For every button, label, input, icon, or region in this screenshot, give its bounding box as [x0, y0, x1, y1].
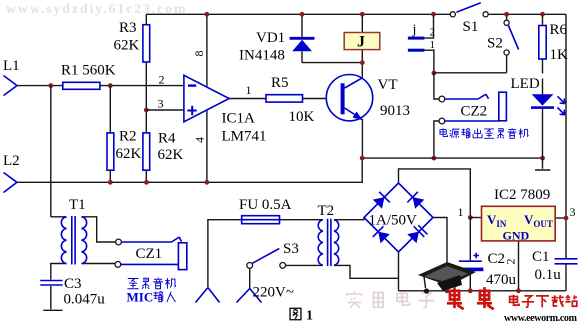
connector CZ1 jack body [178, 243, 186, 270]
node R2 bottom [108, 180, 113, 185]
node pin8 rail junction [205, 12, 210, 17]
switch S1 terminal circles [450, 12, 455, 17]
wire S3 right to T2 [286, 264, 323, 266]
connector CZ1 contact wire [122, 237, 182, 242]
label figure 1 (black hanzi) [290, 308, 301, 319]
node R1 right junction [108, 83, 113, 88]
svg-text:IN4148: IN4148 [239, 48, 285, 64]
node divider tap [144, 108, 149, 113]
wire L2 rail [17, 158, 362, 182]
svg-text:2: 2 [430, 27, 436, 39]
node Vin junction [468, 215, 473, 220]
connector CZ2 contact wire [445, 94, 489, 99]
svg-text:VD1: VD1 [256, 30, 285, 46]
fuse FU axis line [240, 219, 282, 221]
regulator IC2 7809 box [482, 206, 556, 241]
switch S2 arm [508, 26, 518, 50]
wire ground bus [399, 290, 566, 292]
svg-text:www.eeworm.com: www.eeworm.com [504, 313, 578, 324]
svg-text:3: 3 [570, 205, 576, 219]
watermark dianzi download site (red hanzi) [510, 295, 578, 308]
resistor R4 [143, 133, 150, 170]
svg-text:1: 1 [430, 39, 436, 51]
svg-text:LED: LED [511, 76, 540, 92]
svg-text:S1: S1 [463, 19, 479, 35]
wire op-amp pin8 [206, 14, 208, 86]
node CZ2 mid-rail junction [432, 156, 437, 161]
svg-text:1: 1 [306, 309, 313, 324]
svg-text:3: 3 [158, 97, 164, 111]
wire VD1 stubs [302, 14, 362, 62]
svg-text:IC1A: IC1A [222, 111, 256, 127]
wire relay contact 1 down [424, 50, 434, 73]
svg-text:C2: C2 [488, 251, 506, 267]
relay coil J box [344, 33, 380, 50]
node pin4 bottom [205, 180, 210, 185]
svg-text:2: 2 [159, 73, 165, 87]
wire op-amp pin2 input [100, 85, 184, 87]
node bridge right bus junction [445, 288, 450, 293]
wire R5 to VT base [303, 98, 327, 100]
svg-text:FU 0.5A: FU 0.5A [239, 197, 292, 213]
resistor R2 [107, 133, 114, 170]
wire S3 left terminal down [249, 268, 251, 288]
node Vout junction [564, 216, 569, 221]
AC terminal chevron right [237, 289, 262, 303]
capacitor C2 top plate [459, 260, 482, 262]
ground C3 [43, 309, 62, 311]
transformer T2 primary coil [318, 220, 323, 266]
node VD1 top [300, 12, 305, 17]
transformer T2 secondary coil [334, 220, 339, 266]
AC terminal chevron left [196, 288, 220, 303]
svg-text:j: j [412, 23, 417, 38]
bridge rectifier diamond [364, 183, 433, 252]
wire IC2 Vout to rail [555, 217, 566, 219]
wire L1 lead [17, 85, 63, 87]
wire top rail right segment [488, 13, 566, 15]
switch S3 arm [252, 249, 279, 264]
bridge diode top-left [372, 192, 390, 210]
wire op-amp pin3 input [146, 109, 184, 111]
capacitor C3 plates [40, 281, 62, 286]
svg-text:IC2 7809: IC2 7809 [494, 187, 550, 203]
watermark graduation cap [418, 262, 476, 294]
svg-text:R4: R4 [158, 131, 176, 147]
bridge diode top-right [407, 192, 425, 210]
svg-text:R3: R3 [119, 20, 137, 36]
wire R4 bottom lead [145, 170, 147, 182]
capacitor C1 plates [555, 259, 578, 264]
bridge diode bottom-right [407, 223, 428, 244]
wire T1 primary top [51, 216, 67, 218]
transformer T1 primary coil [61, 217, 66, 264]
wire mid ground rail [362, 157, 542, 159]
wire relay J stubs [361, 14, 363, 77]
wire fuse right to T2 [280, 219, 323, 221]
svg-text:R1 560K: R1 560K [61, 63, 116, 79]
svg-text:J: J [357, 34, 365, 51]
wire C3 to ground [50, 286, 52, 309]
svg-text:CZ1: CZ1 [136, 246, 163, 262]
transistor Q1 VT circle [326, 75, 372, 121]
svg-text:C1: C1 [532, 249, 550, 265]
wire T1 secondary top [82, 217, 116, 242]
svg-text:L1: L1 [3, 58, 20, 74]
connector CZ2 terminal circles [439, 96, 445, 102]
label output to recorder (blue hanzi) [440, 128, 529, 138]
wire C1 bottom lead [565, 259, 567, 291]
svg-text:T2: T2 [318, 203, 335, 219]
ground mid rail [535, 158, 550, 170]
transistor VT collector arm [345, 78, 363, 88]
relay contact j plate 2 [408, 37, 425, 40]
wire VT emitter down [361, 119, 363, 158]
wire relay contact 2 to rail [424, 14, 433, 38]
svg-text:S3: S3 [283, 241, 299, 257]
terminal L2 chevron [4, 173, 18, 193]
wire C2 leads [469, 218, 471, 291]
svg-text:62K: 62K [158, 147, 184, 163]
svg-text:1: 1 [458, 205, 464, 219]
node emitter rail junction [360, 156, 365, 161]
svg-text:0.1u: 0.1u [535, 267, 562, 283]
transformer T1 secondary coil [82, 217, 87, 264]
svg-text:C3: C3 [64, 276, 82, 292]
transistor VT emitter arm [345, 108, 359, 117]
svg-text:470u: 470u [486, 272, 517, 288]
LED arrow 2 [558, 108, 565, 115]
node contact2 rail junction [431, 12, 436, 17]
svg-text:62K: 62K [114, 38, 140, 54]
svg-text:MIC: MIC [127, 290, 154, 305]
wire IC2 GND pin [518, 241, 520, 291]
capacitor C2 plus sign [473, 253, 479, 259]
LED arrow 1 [558, 96, 565, 103]
terminal L1 chevron [4, 76, 18, 96]
transformer T2 core [328, 219, 331, 266]
connector CZ2 lower wire [445, 120, 499, 122]
wire op-amp output [229, 98, 266, 100]
switch S3 terminal circles [247, 263, 253, 269]
wire fuse left lead and AC terminal L [208, 220, 242, 287]
LED cathode bar [531, 106, 554, 109]
watermark shiyong dianzi (pale hanzi) [347, 291, 435, 308]
transformer T1 core [72, 216, 75, 265]
svg-text:4: 4 [193, 137, 207, 143]
node GND bus junction [516, 288, 521, 293]
node LED bottom junction [540, 156, 545, 161]
svg-text:62K: 62K [116, 146, 142, 162]
wire T1 secondary bottom [82, 263, 115, 265]
op-amp U1 triangle [184, 75, 229, 122]
svg-text:8: 8 [192, 51, 206, 57]
wire CZ2 terminal stubs [434, 73, 439, 158]
node J top [360, 12, 365, 17]
wire Vin to IC2 [470, 217, 481, 219]
svg-text:9013: 9013 [380, 103, 410, 119]
transistor VT emitter arrow [353, 112, 363, 121]
svg-text:GND: GND [503, 229, 530, 243]
wire R3-R4 vertical [145, 14, 147, 133]
watermark chongchong logo (red hanzi) [447, 287, 494, 309]
capacitor C2 bottom plate [457, 268, 483, 272]
wire bridge right corner to bus [433, 218, 447, 291]
wire bridge top to IC2 Vin [399, 169, 471, 218]
op-amp minus sign [188, 84, 196, 86]
wire bridge bottom to ground bus [398, 252, 400, 291]
connector CZ2 jack body [499, 92, 507, 121]
resistor R1 [63, 82, 100, 89]
connector CZ1 terminal circles [116, 239, 122, 245]
wire right rail [565, 14, 567, 258]
svg-text:220V~: 220V~ [253, 285, 294, 301]
node R6 top junction [540, 12, 545, 17]
wire top rail left segment [146, 13, 450, 15]
node R4 bottom [144, 180, 149, 185]
svg-text:R2: R2 [119, 129, 137, 145]
relay contact j plate 1 [408, 49, 425, 52]
svg-text:T1: T1 [69, 197, 86, 213]
svg-text:CZ2: CZ2 [461, 104, 488, 120]
svg-text:R5: R5 [271, 75, 289, 91]
wire T2 secondary bottom to bridge bottom [334, 265, 399, 278]
switch S1 arm [456, 3, 480, 12]
node S2 rail junction [504, 12, 509, 17]
bridge diode bottom-left [373, 226, 391, 244]
svg-text:VT: VT [378, 77, 398, 93]
wire T2 secondary top to bridge [334, 218, 364, 220]
resistor R5 [266, 95, 303, 102]
resistor R6 [539, 26, 546, 60]
wire R2 leads [109, 86, 111, 183]
diode VD1 [290, 37, 315, 51]
LED D1 triangle [532, 94, 554, 105]
svg-text:LM741: LM741 [222, 129, 267, 145]
switch S2 terminal circles [504, 20, 509, 25]
fuse FU body [242, 216, 280, 224]
wire L1 vertical to T1 [50, 86, 52, 217]
transistor VT base bar [341, 83, 345, 114]
svg-text:1A/50V: 1A/50V [369, 213, 418, 229]
wire op-amp pin4 [206, 111, 208, 183]
wire T1 primary bottom [51, 264, 67, 280]
wire R6 leads [542, 14, 544, 94]
svg-text:R6: R6 [550, 22, 568, 38]
svg-text:2: 2 [504, 259, 518, 265]
svg-text:1: 1 [246, 83, 252, 97]
node L1 junction [48, 83, 53, 88]
wire LED cathode down [542, 108, 544, 158]
op-amp plus sign [187, 106, 196, 115]
connector CZ1 lower wire [121, 263, 178, 265]
svg-text:1K: 1K [550, 47, 569, 63]
svg-text:S2: S2 [487, 36, 503, 52]
wire S2 branch [434, 17, 507, 73]
resistor R3 [143, 25, 150, 62]
node C2 bottom bus junction [468, 288, 473, 293]
node J bottom VD1 junction [360, 60, 365, 65]
svg-text:10K: 10K [289, 109, 315, 125]
node CZ2 junction [432, 71, 437, 76]
svg-text:0.047u: 0.047u [64, 292, 106, 308]
svg-text:L2: L2 [3, 153, 20, 169]
label to recorder MIC (blue hanzi) [127, 278, 175, 289]
